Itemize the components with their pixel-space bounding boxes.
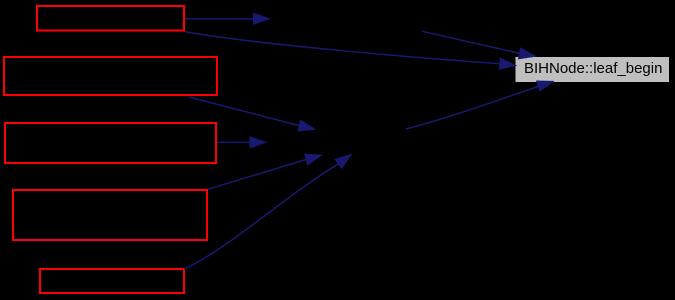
edge caller-1 -> BIHNode::leaf_begin (long curve) bbox=[185, 32, 500, 64]
node caller-5 (truncated, red) bbox=[40, 269, 184, 293]
edge mid-node-2 -> BIHNode::leaf_begin bbox=[406, 87, 538, 130]
svg-text:BIHNode::leaf_begin: BIHNode::leaf_begin bbox=[524, 60, 662, 77]
edge caller-3 -> mid-node-2 bbox=[217, 141, 250, 143]
node caller-1 (truncated, red) bbox=[37, 6, 184, 31]
edge caller-1 -> mid-node-1 bbox=[185, 18, 254, 20]
node caller-3 (truncated, red) bbox=[5, 123, 216, 163]
edge caller-4 -> mid-node-2 bbox=[208, 160, 306, 190]
edge caller-2 -> mid-node-2 bbox=[189, 97, 299, 126]
node caller-2 (truncated, red) bbox=[4, 57, 217, 95]
edge mid-node-1 -> BIHNode::leaf_begin bbox=[422, 31, 519, 53]
edge caller-5 -> mid-node-2 bbox=[184, 164, 338, 269]
node caller-4 (truncated, red) bbox=[13, 190, 207, 240]
node BIHNode::leaf_begin (current, grey) bbox=[516, 57, 670, 82]
